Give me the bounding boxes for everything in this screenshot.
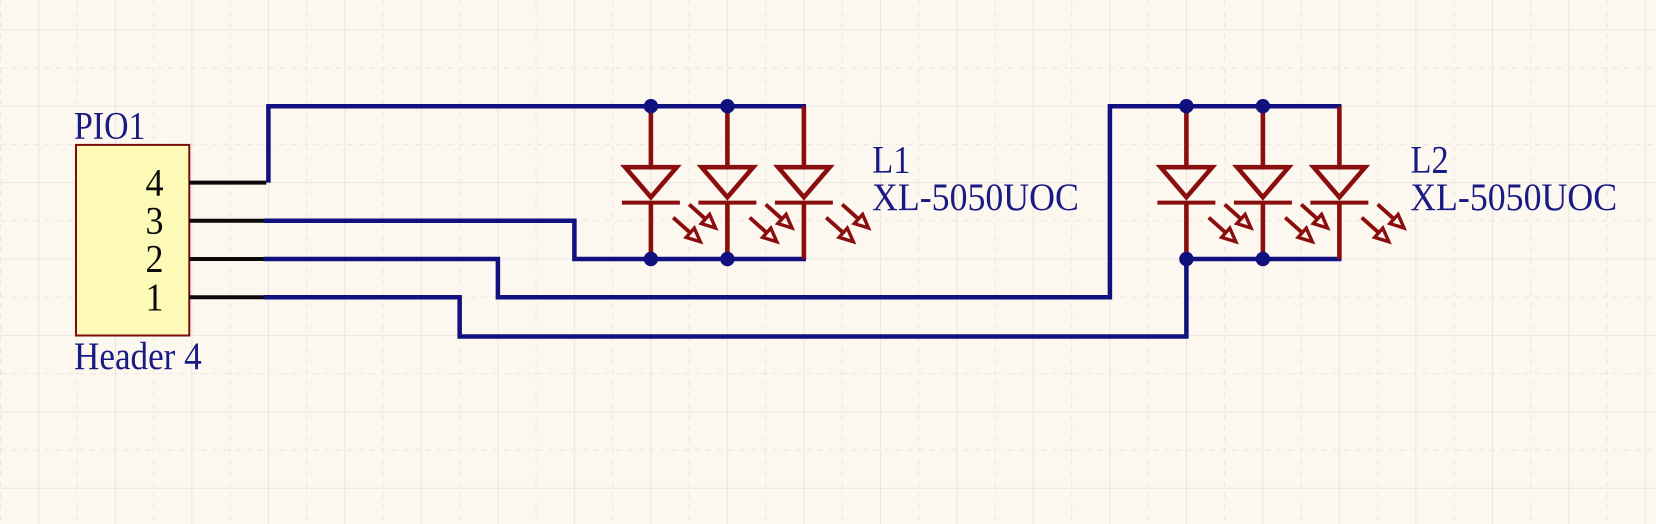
- wire net pin4 to L1 anode bus: [268, 106, 806, 182]
- junction: [1256, 99, 1270, 113]
- svg-text:L1: L1: [872, 139, 910, 182]
- connector PIO1 body: [76, 145, 189, 336]
- LED L2 element 2: [1234, 106, 1328, 259]
- pin 4: [145, 162, 266, 205]
- junction: [720, 99, 734, 113]
- svg-text:XL-5050UOC: XL-5050UOC: [872, 177, 1079, 220]
- svg-text:L2: L2: [1411, 139, 1449, 182]
- junction: [1179, 252, 1193, 266]
- pin 3: [145, 200, 263, 243]
- LED L1 element 2: [698, 106, 792, 259]
- svg-text:4: 4: [145, 162, 163, 205]
- junction: [720, 252, 734, 266]
- wire net pin2 to L2 anode bus: [264, 106, 1342, 297]
- svg-text:3: 3: [145, 200, 163, 243]
- wire net pin3 to L1 cathode bus: [264, 221, 807, 259]
- LED L2 element 1: [1157, 106, 1251, 259]
- junction: [644, 99, 658, 113]
- svg-text:2: 2: [145, 238, 163, 281]
- LED L2 element 3: [1310, 106, 1404, 259]
- junction: [1179, 99, 1193, 113]
- pin 1: [145, 277, 263, 320]
- pin 2: [145, 238, 263, 281]
- LED L1 element 1: [622, 106, 716, 259]
- svg-text:Header 4: Header 4: [74, 336, 202, 379]
- wire net pin1 to L2 cathode bus: [264, 259, 1342, 337]
- LED L1 element 3: [775, 106, 869, 259]
- junction: [1256, 252, 1270, 266]
- svg-text:1: 1: [145, 277, 163, 320]
- junction: [644, 252, 658, 266]
- svg-text:PIO1: PIO1: [74, 105, 145, 148]
- svg-text:XL-5050UOC: XL-5050UOC: [1410, 177, 1617, 220]
